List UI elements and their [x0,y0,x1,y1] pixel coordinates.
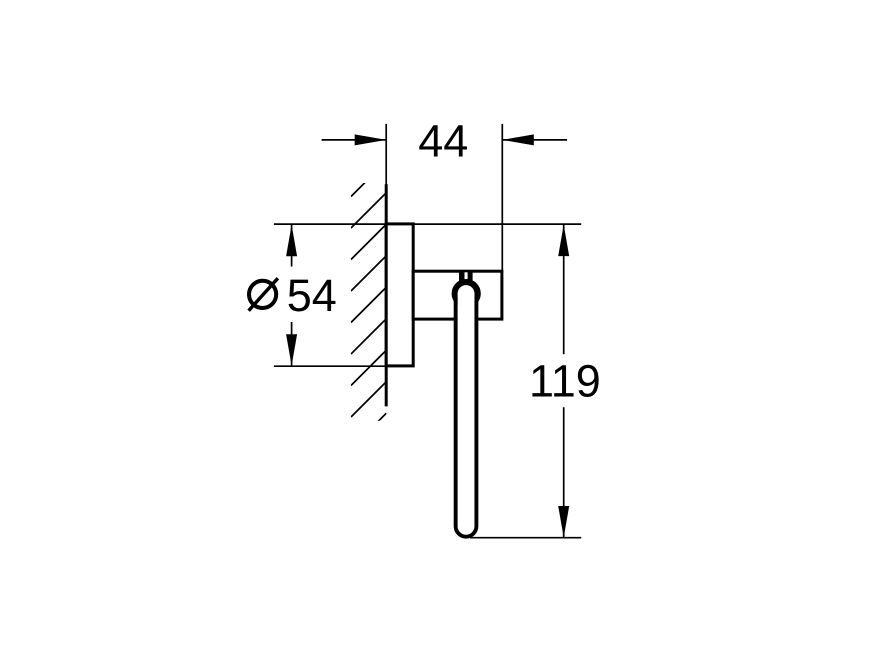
ring tube [456,297,477,537]
arrowhead 119 down [558,506,569,538]
extension line left (44) [385,124,387,186]
dimension line D54 [291,225,293,366]
svg-text:54: 54 [287,270,337,321]
diameter symbol slash of D54 [249,278,278,311]
text mask 119 [526,354,604,407]
extension line right (44) [501,124,503,271]
dimension line 44 left segment [322,139,386,141]
mounting arm [413,271,502,319]
svg-text:44: 44 [418,116,468,167]
dimension line 44 right segment [503,139,568,141]
arrowhead 44 left [355,134,387,145]
extension line bottom (D54) [274,365,414,367]
svg-text:119: 119 [529,356,601,407]
arrowhead 119 up [558,225,569,257]
ring interior (white) [458,285,475,535]
wall line [385,184,388,406]
wall hatching [351,161,386,448]
arrowhead 44 right [502,134,534,145]
ring eyelet [455,282,477,304]
dimension line 119 [563,225,565,538]
extension line bottom (119) [470,537,581,539]
arrowhead D54 down [286,334,297,366]
diameter symbol O of D54 [249,281,276,308]
pivot peg [459,270,473,284]
peg slot [465,272,468,280]
extension line top (shared D54 top / 119 top) [274,223,581,225]
arrowhead D54 up [286,225,297,256]
text mask D54 [243,267,340,323]
wall plate (side view) [386,224,413,366]
